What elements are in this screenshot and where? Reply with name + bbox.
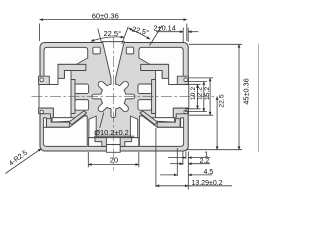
bottom T-slot cavity (89, 138, 139, 147)
bottom slot left hook (95, 138, 106, 147)
dim 22.5 line (216, 97, 218, 150)
bottom-left diagonal wall (69, 111, 87, 125)
svg-text:60±0.36: 60±0.36 (92, 11, 119, 20)
dim 4.5 line left part (160, 174, 177, 176)
svg-text:22.5°: 22.5° (104, 29, 122, 38)
dim 45 extension lines (186, 44, 242, 149)
pocket inside bottom-right lip foot (184, 110, 187, 113)
centerline horizontal (32, 96, 216, 98)
dim 12.2 extension lines (185, 82, 207, 112)
leader line for hole diameter (100, 113, 104, 129)
J-groove pocket of top V-slot right lip (126, 47, 133, 54)
bottom slot mouth (106, 145, 120, 153)
J-groove pocket of top V-slot left lip (93, 47, 100, 54)
bottom-left mouth lip foot (39, 108, 54, 118)
bottom slot right hook (120, 138, 131, 147)
left mouth cavity (39, 71, 71, 118)
dim 10.2 extension lines (185, 84, 201, 109)
dim 60 line (40, 19, 187, 21)
top-left tongue with hook (58, 64, 86, 78)
chamber bottom-left (43, 116, 87, 146)
dim 1 line right part (188, 157, 210, 159)
dim 13.29 line (156, 185, 188, 187)
dim 4.5 line right part (188, 174, 212, 176)
dim 60 extension lines (40, 24, 187, 42)
svg-text:13.29±0.2: 13.29±0.2 (192, 180, 223, 187)
dim 15.2 extension lines (189, 78, 213, 115)
dim 12.2 line (203, 82, 205, 112)
mid-right internal wall (152, 80, 156, 114)
dim 2 line right part (188, 31, 198, 33)
pocket inside top-left lip foot (40, 78, 43, 82)
svg-text:Ø10.2±0.2: Ø10.2±0.2 (94, 128, 128, 137)
dim 13.29 line tail under text (188, 185, 232, 187)
mid-left internal wall (71, 80, 75, 114)
svg-text:4-R2.5: 4-R2.5 (8, 149, 29, 167)
chamber bottom-right (139, 116, 183, 146)
angle dim left: V wall extension line (98, 29, 102, 43)
top-right tongue with hook (141, 64, 169, 78)
angle dim left arc (91, 37, 124, 41)
bottom right vertical extension lines (156, 128, 188, 190)
groove chamber mid-left upper (75, 84, 89, 94)
bottom-right diagonal wall (140, 111, 158, 125)
right mouth cavity (156, 71, 189, 118)
svg-text:2.2: 2.2 (200, 158, 210, 165)
sliver left of bottom-left tongue tip (43, 118, 46, 127)
chamber above bottom slot left (89, 116, 96, 138)
svg-text:45±0.36: 45±0.36 (241, 78, 250, 104)
centerline vertical (112, 38, 114, 171)
angle dim right arc (129, 28, 150, 39)
bottom-right mouth lip foot (173, 108, 188, 118)
dim 20 line (88, 164, 139, 166)
chamber top-right (139, 47, 183, 84)
svg-text:12.2: 12.2 (197, 87, 204, 100)
profile body: aluminum extrusion outer silhouette 60x45 (40, 43, 188, 152)
groove chamber mid-right lower (138, 100, 152, 111)
svg-text:22.5: 22.5 (219, 94, 226, 107)
svg-text:22.5°: 22.5° (131, 24, 150, 37)
svg-text:15.2: 15.2 (204, 87, 211, 100)
dim 45 line (238, 44, 240, 149)
dim 2 line left part (156, 31, 183, 33)
dim 20 extension lines (88, 152, 139, 167)
pocket inside bottom-left lip foot (40, 110, 43, 113)
svg-text:2±0.14: 2±0.14 (154, 24, 176, 33)
angle dim right: second leg line (150, 26, 163, 46)
sliver right of bottom-right tongue tip (181, 118, 184, 127)
dim 15.2 line (209, 78, 211, 115)
pocket inside top-right lip foot (184, 78, 187, 82)
chamber top-left (44, 47, 88, 84)
dim 10.2 line (197, 84, 199, 109)
svg-text:20: 20 (110, 156, 118, 165)
top V-slot merged with central splined core hole (92, 42, 135, 118)
bottom-right tongue with hook (157, 119, 180, 127)
groove chamber mid-right upper (138, 84, 152, 94)
svg-text:4.5: 4.5 (204, 169, 214, 176)
leader underline for hole diameter text (94, 135, 134, 137)
pocket above bottom-left tongue (52, 112, 86, 122)
chamber above bottom slot right (130, 116, 137, 138)
dim 1 line left part (168, 157, 186, 159)
leader line 4-R2.5 (5, 149, 41, 174)
dim 2.2 line left part (170, 163, 183, 165)
drawing border fragment right (258, 44, 260, 153)
groove chamber mid-left lower (75, 100, 89, 111)
dim 2 extension lines (183, 28, 188, 43)
dim 2.2 line right part (188, 163, 210, 165)
top-left mouth lip foot (39, 76, 50, 84)
bottom-left tongue with hook (47, 119, 70, 127)
pocket above bottom-right tongue (141, 112, 175, 122)
top-right mouth lip foot (177, 76, 188, 84)
angle dim right: 22.5deg construction line (122, 27, 129, 45)
